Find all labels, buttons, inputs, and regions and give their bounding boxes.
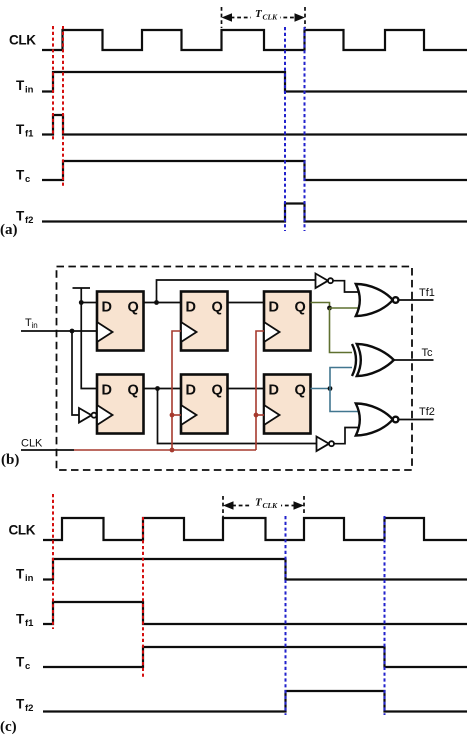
svg-text:c: c (25, 174, 30, 185)
wire Q6 to NOR G3 (blue) (330, 389, 358, 412)
svg-text:Q: Q (212, 383, 223, 399)
blue dashed marker line 2 (a) (304, 27, 306, 231)
svg-text:D: D (269, 300, 279, 316)
svg-text:f2: f2 (25, 703, 33, 714)
CLK input wire (21, 449, 74, 451)
D flip-flop U7 (bottom-right) (264, 375, 311, 434)
wire riser2 branch FF6 clock (256, 414, 264, 416)
blue dashed marker line 2 (c) (384, 516, 386, 715)
wire Q3 to NOR G1 (330, 307, 359, 309)
wire U1 output to FF4 clock (97, 414, 99, 416)
dashed enclosure box (b) (57, 267, 413, 471)
svg-text:T: T (16, 78, 25, 93)
svg-text:T: T (16, 655, 25, 670)
TCLK dashed arrow (c) (226, 505, 302, 507)
inverter U9 (bottom) (317, 437, 330, 452)
svg-text:D: D (102, 300, 112, 316)
Tf2 waveform (a) (42, 204, 467, 222)
svg-text:(c): (c) (0, 719, 17, 735)
TCLK right tick (c) (303, 496, 305, 514)
TCLK arrowhead left (c) (223, 501, 234, 509)
inverter U1 (Tin clock inverter) (79, 408, 92, 423)
D flip-flop U3 (top-middle) (181, 292, 228, 351)
wire Q6 to XOR G2 (blue) (330, 368, 354, 389)
svg-text:(b): (b) (1, 452, 19, 468)
wire G3 output Tf2 (398, 419, 433, 421)
svg-text:f1: f1 (25, 129, 34, 140)
wire tie branch to FF1.D (81, 302, 97, 304)
wire Q4 to FF5.D (144, 388, 182, 390)
wire riser1 branch FF5 clock (172, 414, 181, 416)
Tin input wire (21, 330, 97, 332)
svg-text:T: T (16, 697, 25, 712)
svg-text:T: T (16, 612, 25, 627)
wire tie stem to FF1.D and FF4.D (81, 288, 97, 389)
Tin waveform (c) (43, 559, 467, 580)
tie-high bar (73, 287, 91, 289)
svg-text:Tf2: Tf2 (419, 406, 435, 418)
TCLK dashed arrow (a) (224, 17, 302, 19)
XOR gate G2 (Tc) (357, 344, 394, 376)
svg-text:in: in (25, 85, 34, 96)
svg-text:CLK: CLK (21, 438, 43, 450)
svg-text:D: D (269, 383, 279, 399)
D flip-flop U6 (bottom-middle) (181, 375, 228, 434)
Tc waveform (a) (42, 161, 467, 180)
CLK waveform (a) (42, 30, 467, 50)
svg-text:in: in (32, 321, 38, 330)
wire G1 output Tf1 (398, 299, 433, 301)
blue dashed marker line 1 (a) (284, 27, 286, 231)
wire U9 output to NOR G3 (334, 428, 358, 444)
Tf1 waveform (c) (43, 602, 467, 624)
svg-text:c: c (25, 661, 30, 672)
D flip-flop U5 (bottom-left) (97, 375, 144, 434)
red clock riser 1 (172, 331, 181, 450)
Tc waveform (c) (43, 647, 467, 667)
D flip-flop U2 (top-left) (97, 292, 144, 351)
wire G2 output Tc (394, 359, 434, 361)
svg-text:CLK: CLK (9, 33, 36, 48)
node riser1 to FF5 clock (170, 413, 175, 418)
red dashed marker line 1 (a) (52, 26, 54, 140)
TCLK left tick (a) (221, 7, 223, 28)
wire Q1 to inverter U8 (157, 280, 317, 303)
svg-text:Q: Q (128, 383, 139, 399)
wire Q3 to XOR G2 (green) (330, 308, 355, 353)
D flip-flop U4 (top-right) (264, 292, 311, 351)
TCLK arrowhead right (c) (294, 501, 305, 509)
svg-text:T: T (16, 567, 25, 582)
node riser2 to FF6 clock (254, 413, 259, 418)
NOR gate G3 (Tf2) (356, 404, 393, 436)
svg-text:D: D (102, 383, 112, 399)
svg-text:D: D (186, 383, 196, 399)
CLK red bus (74, 449, 256, 451)
TCLK left tick (c) (222, 496, 224, 517)
node Q4 junction (155, 386, 160, 391)
red dashed marker line 2 (c) (142, 517, 144, 677)
node Q6 junction (328, 386, 333, 391)
svg-text:Q: Q (295, 300, 306, 316)
svg-text:CLK: CLK (263, 13, 279, 22)
svg-text:Tf1: Tf1 (419, 287, 435, 299)
inverter U8 (top) (316, 274, 329, 289)
svg-text:CLK: CLK (9, 523, 36, 538)
wire Q6 (blue) (311, 388, 331, 390)
node FF1.D junction (79, 300, 84, 305)
blue dashed marker line 1 (c) (285, 516, 287, 715)
wire Q2 to FF3.D (228, 302, 265, 304)
svg-text:T: T (16, 168, 25, 183)
wire Tin to inverter U1 (72, 331, 80, 415)
node Q3 junction (327, 306, 332, 311)
node Q1 junction (154, 300, 159, 305)
NOR gate G1 (Tf1) (356, 284, 393, 316)
svg-text:D: D (186, 300, 196, 316)
svg-text:f1: f1 (25, 618, 34, 629)
red clock riser 2 (256, 331, 264, 450)
Tf1 waveform (a) (42, 115, 467, 135)
svg-text:Q: Q (128, 300, 139, 316)
node Tin-junction (70, 329, 75, 334)
svg-text:Q: Q (212, 300, 223, 316)
svg-text:Tc: Tc (422, 347, 434, 359)
TCLK arrowhead right (a) (295, 13, 306, 21)
svg-text:T: T (16, 122, 25, 137)
red dashed marker line 1 (c) (52, 494, 54, 629)
wire Q1 to FF2.D (144, 302, 182, 304)
Tin waveform (a) (42, 72, 467, 92)
wire Q4 under-route to inverter U9 (158, 389, 318, 444)
CLK waveform (c) (43, 518, 467, 540)
Tf2 waveform (c) (43, 691, 467, 712)
svg-text:f2: f2 (25, 215, 33, 226)
svg-text:CLK: CLK (263, 501, 279, 510)
svg-text:in: in (25, 573, 34, 584)
red dashed marker line 2 (a) (62, 26, 64, 188)
wire Q5 to FF6.D (228, 388, 265, 390)
wire U8 output to NOR G1 (333, 281, 358, 292)
node CLK red junction (170, 448, 175, 453)
svg-text:(a): (a) (0, 222, 18, 238)
wire Q3 (green) (311, 303, 330, 309)
svg-text:Q: Q (295, 383, 306, 399)
TCLK right tick (a) (304, 7, 306, 28)
TCLK arrowhead left (a) (222, 13, 233, 21)
